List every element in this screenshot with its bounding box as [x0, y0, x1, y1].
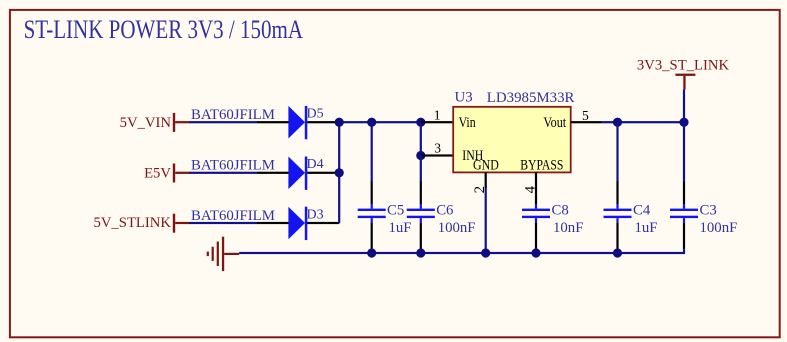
op-amp U3 part value LD3985M33R: [487, 90, 575, 106]
title text: [24, 15, 304, 44]
wire 5V_STLINK net: [189, 222, 257, 224]
svg-text:1: 1: [434, 108, 441, 123]
svg-text:ST-LINK POWER 3V3 / 150mA: ST-LINK POWER 3V3 / 150mA: [24, 15, 304, 44]
diode D3: [288, 207, 307, 240]
svg-text:C3: C3: [700, 203, 717, 219]
diode D4 part value BAT60JFILM: [191, 158, 275, 174]
pin name Vout: [543, 115, 566, 131]
diode D5 designator: [307, 107, 324, 122]
capacitor C6 upper wire: [420, 156, 422, 209]
diode D4 designator: [307, 157, 324, 172]
svg-text:D5: D5: [307, 107, 324, 122]
svg-text:5V_VIN: 5V_VIN: [120, 115, 172, 131]
diode D5: [288, 106, 307, 139]
junction diode bus middle: [335, 168, 344, 177]
capacitor C5 value 1uF: [389, 220, 412, 236]
junction diode bus top: [335, 118, 344, 127]
ground: [207, 237, 240, 271]
wire 5V_VIN net: [189, 121, 257, 123]
wire INH drop: [420, 122, 422, 155]
pin name BYPASS: [520, 158, 563, 174]
diode D5 part value BAT60JFILM: [191, 107, 275, 123]
capacitor C5 designator: [387, 203, 404, 219]
svg-text:4: 4: [522, 185, 538, 193]
capacitor C8: [522, 209, 550, 218]
wire vertical bus joining diode outputs: [338, 122, 340, 223]
svg-text:Vin: Vin: [459, 115, 476, 131]
pin number 2: [472, 186, 488, 194]
svg-text:C8: C8: [552, 203, 569, 219]
junction C5 ground: [367, 248, 376, 257]
junction C4 tap: [613, 118, 622, 127]
svg-text:10nF: 10nF: [553, 220, 583, 236]
svg-text:C5: C5: [387, 203, 404, 219]
svg-text:D3: D3: [307, 207, 324, 222]
pin name INH: [462, 148, 483, 164]
op-amp U3 pin 5 wire: [571, 121, 602, 123]
svg-text:1uF: 1uF: [389, 220, 412, 236]
wire ground rail: [239, 252, 684, 254]
op-amp U3 pin 4 wire: [535, 172, 537, 193]
wire Vin rail: [339, 121, 421, 123]
pin name GND: [473, 158, 499, 174]
svg-text:C4: C4: [633, 203, 651, 219]
capacitor C3 lower wire: [683, 218, 685, 254]
op-amp U3 pin 2 wire: [485, 172, 487, 188]
port E5V: [144, 164, 189, 183]
svg-text:5V_STLINK: 5V_STLINK: [93, 215, 171, 231]
junction C6 ground: [416, 248, 425, 257]
svg-text:LD3985M33R: LD3985M33R: [487, 90, 575, 106]
svg-text:Vout: Vout: [543, 115, 566, 131]
capacitor C6: [407, 209, 435, 218]
capacitor C5 upper wire: [371, 122, 373, 208]
pin number 5: [582, 108, 589, 123]
op-amp U3 pin 1 wire: [421, 121, 453, 123]
svg-text:1uF: 1uF: [635, 220, 658, 236]
junction C5 tap: [367, 118, 376, 127]
svg-text:E5V: E5V: [144, 165, 171, 181]
svg-text:100nF: 100nF: [438, 220, 476, 236]
capacitor C6 value 100nF: [438, 220, 476, 236]
op-amp U3 pin 3 wire: [421, 154, 453, 156]
wire E5V net: [189, 172, 257, 174]
capacitor C5: [358, 209, 386, 218]
capacitor C5 lower wire: [371, 218, 373, 253]
pin number 4: [522, 185, 538, 193]
capacitor C4 designator: [633, 203, 651, 219]
diode D4 anode pin: [257, 172, 289, 174]
diode D3 designator: [307, 207, 324, 222]
svg-text:BAT60JFILM: BAT60JFILM: [191, 107, 275, 123]
pin number 3: [434, 140, 441, 155]
junction INH tap: [416, 151, 425, 160]
wire 3V3 drop: [683, 90, 685, 124]
svg-text:3V3_ST_LINK: 3V3_ST_LINK: [637, 57, 730, 73]
svg-text:BAT60JFILM: BAT60JFILM: [191, 208, 275, 224]
port 5V_STLINK: [93, 214, 189, 233]
wire D5 cathode pin: [307, 121, 339, 123]
diode D5 anode pin: [257, 121, 289, 123]
svg-text:100nF: 100nF: [700, 220, 738, 236]
svg-text:D4: D4: [307, 157, 324, 172]
junction 3V3 node: [679, 118, 688, 127]
svg-text:GND: GND: [473, 158, 499, 174]
capacitor C3: [670, 209, 698, 218]
junction C6 tap: [416, 118, 425, 127]
op-amp U3 designator: [455, 89, 473, 105]
svg-text:BYPASS: BYPASS: [520, 158, 563, 174]
power port 3V3_ST_LINK: [637, 57, 730, 89]
wire Vout rail: [602, 121, 685, 123]
wire GND pin drop: [485, 188, 487, 253]
diode D3 anode pin: [257, 222, 289, 224]
capacitor C8 value 10nF: [553, 220, 583, 236]
capacitor C3 designator: [700, 203, 717, 219]
svg-text:3: 3: [434, 140, 441, 155]
capacitor C3 upper wire: [683, 122, 685, 208]
capacitor C6 lower wire: [420, 218, 422, 253]
pin name Vin: [459, 115, 476, 131]
svg-text:U3: U3: [455, 89, 473, 105]
diode D4: [288, 157, 307, 190]
capacitor C8 designator: [552, 203, 569, 219]
capacitor C6 designator: [436, 203, 453, 219]
junction C8 ground: [531, 248, 540, 257]
capacitor C4 upper wire: [616, 122, 618, 208]
pin number 1: [434, 108, 441, 123]
capacitor C8 lower wire: [535, 218, 537, 253]
capacitor C3 value 100nF: [700, 220, 738, 236]
wire D3 cathode pin: [307, 222, 339, 224]
junction C4 ground: [613, 248, 622, 257]
op-amp U3 regulator body: [453, 107, 571, 173]
port 5V_VIN: [120, 113, 190, 132]
svg-text:5: 5: [582, 108, 589, 123]
diode D3 part value BAT60JFILM: [191, 208, 275, 224]
capacitor C4 value 1uF: [635, 220, 658, 236]
capacitor C4 lower wire: [616, 218, 618, 253]
capacitor C4: [604, 209, 632, 218]
capacitor C8 upper wire: [535, 193, 537, 208]
wire D4 cathode pin: [307, 172, 339, 174]
junction GND pin ground: [481, 248, 490, 257]
svg-text:BAT60JFILM: BAT60JFILM: [191, 158, 275, 174]
svg-text:C6: C6: [436, 203, 453, 219]
